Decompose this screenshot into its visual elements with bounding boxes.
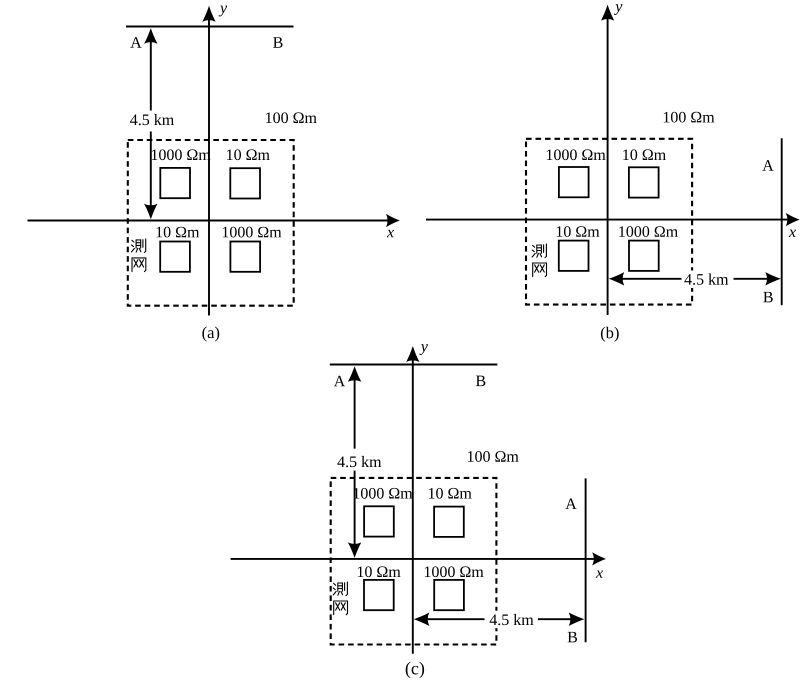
(a) TL square label 1000 Ohmm: [152, 149, 211, 160]
(b) BR square label 1000 Ohmm: [619, 226, 678, 237]
(a) y-axis arrowhead: [202, 6, 215, 22]
(a) TL anomaly square: [160, 168, 190, 198]
(b) subfigure caption: [601, 327, 619, 342]
(a) x-axis label x: [387, 230, 394, 237]
(a) background resistivity label 100 Ohm-m: [266, 112, 317, 123]
(b) x-axis arrowhead: [786, 213, 800, 226]
(c) horizontal distance label 4.5 km: [490, 614, 534, 625]
(a) subfigure caption: [202, 327, 219, 342]
(c) white gap behind vertical 4.5 km text: [333, 449, 383, 471]
(a) x-axis arrowhead: [386, 214, 400, 227]
(b) 4.5 km arrow left shaft: [622, 278, 682, 280]
(c) x-axis label x: [596, 570, 603, 577]
(c) TL square label 1000 Ohmm: [354, 488, 413, 499]
(c) TL anomaly square: [364, 506, 394, 536]
(c) top electrode label B: [476, 376, 485, 387]
(b) background resistivity label 100 Ohm-m: [664, 112, 715, 123]
(c) AB electrode line (horizontal, top): [330, 364, 498, 366]
(a) y-axis label y: [219, 6, 227, 17]
(a) TR anomaly square: [230, 168, 260, 198]
(a) AB electrode line (horizontal, top): [126, 26, 294, 28]
(a) electrode label A: [130, 37, 141, 48]
(c) TR anomaly square: [434, 507, 464, 537]
(b) 4.5 km arrow left arrowhead: [609, 272, 625, 285]
(c) A'B' electrode line (vertical, right): [585, 478, 587, 642]
(a) distance label 4.5 km: [130, 114, 174, 125]
(b) 4.5 km arrow right shaft: [734, 278, 768, 280]
(c) top electrode label A: [334, 376, 345, 387]
(c) dashed survey-area box: [331, 478, 497, 645]
(b) BL square label 10 Ohmm: [557, 226, 600, 237]
(c) horizontal 4.5 km arrow left arrowhead: [414, 613, 430, 626]
(b) white gap behind 4.5 km text: [683, 271, 732, 289]
(c) vertical 4.5 km arrow lower shaft: [354, 471, 356, 545]
(b) electrode label B: [763, 292, 772, 303]
(a) survey-grid characters Ce-Wang: [132, 239, 146, 272]
(a) BL anomaly square: [160, 242, 190, 272]
(b) y-axis arrowhead: [601, 5, 614, 21]
(c) BL square label 10 Ohmm: [358, 566, 401, 577]
(b) y-axis line: [607, 17, 609, 315]
(c) horizontal 4.5 km arrow right arrowhead: [569, 613, 585, 626]
(b) BL anomaly square: [559, 241, 589, 271]
(c) BR anomaly square: [434, 580, 464, 610]
(c) survey-grid characters Ce-Wang: [333, 582, 347, 615]
(c) y-axis line: [412, 358, 414, 654]
(c) right electrode label B: [568, 632, 577, 643]
(b) y-axis label y: [614, 4, 622, 15]
(a) dashed survey-area box: [128, 140, 294, 306]
(a) BR anomaly square: [230, 242, 260, 272]
(a) BR square label 1000 Ohmm: [223, 227, 282, 238]
(c) BL anomaly square: [364, 580, 394, 610]
(b) TR anomaly square: [629, 167, 659, 197]
(a) 4.5 km arrow lower shaft: [150, 131, 152, 206]
(b) distance label 4.5 km: [684, 273, 728, 284]
(b) BR anomaly square: [629, 241, 659, 271]
(c) vertical 4.5 km arrow bottom arrowhead: [348, 542, 361, 558]
(b) x-axis label x: [789, 230, 796, 237]
(b) TR square label 10 Ohmm: [623, 149, 666, 160]
(a) TR square label 10 Ohmm: [227, 149, 270, 160]
(b) dashed survey-area box: [526, 139, 692, 305]
(b) x-axis line: [426, 219, 789, 221]
(a) white gap behind 4.5 km text: [128, 111, 176, 132]
(c) right electrode label A: [565, 498, 576, 509]
(b) TL square label 1000 Ohmm: [547, 149, 606, 160]
(a) electrode label B: [273, 37, 282, 48]
(a) y-axis line: [208, 18, 210, 316]
(c) background resistivity label 100 Ohm-m: [468, 451, 519, 462]
(b) electrode label A: [762, 160, 773, 171]
(c) y-axis arrowhead: [406, 346, 419, 362]
(b) survey-grid characters Ce-Wang: [532, 244, 546, 277]
(c) TR square label 10 Ohmm: [429, 488, 472, 499]
(a) 4.5 km arrow upper shaft: [150, 40, 152, 111]
(a) 4.5 km arrow top arrowhead: [144, 28, 157, 44]
(b) 4.5 km arrow right arrowhead: [765, 272, 781, 285]
(c) x-axis line: [231, 558, 595, 560]
(b) TL anomaly square: [559, 167, 589, 197]
(b) AB electrode line (vertical, right): [781, 138, 783, 305]
(a) 4.5 km arrow bottom arrowhead: [144, 204, 157, 220]
(c) y-axis label y: [419, 344, 427, 355]
(c) BR square label 1000 Ohmm: [425, 566, 484, 577]
(a) BL square label 10 Ohmm: [157, 227, 200, 238]
(c) vertical 4.5 km arrow top arrowhead: [348, 366, 361, 382]
(c) horizontal 4.5 km arrow right shaft: [538, 618, 571, 620]
(c) vertical distance label 4.5 km: [337, 456, 381, 467]
(c) subfigure caption: [406, 662, 424, 678]
(c) vertical 4.5 km arrow upper shaft: [354, 378, 356, 449]
(c) white gap behind horizontal 4.5 km text: [487, 611, 536, 629]
(c) x-axis arrowhead: [592, 552, 606, 565]
(c) horizontal 4.5 km arrow left shaft: [427, 618, 485, 620]
(a) x-axis line: [28, 220, 389, 222]
